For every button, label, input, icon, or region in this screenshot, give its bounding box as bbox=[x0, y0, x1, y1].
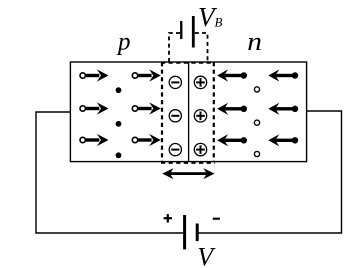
donor ion row1 bbox=[194, 76, 206, 88]
donor ion row3 bbox=[194, 143, 206, 155]
wire: battery VB right dashed lead bbox=[195, 33, 208, 62]
depletion box top edge (dashed) bbox=[161, 61, 215, 63]
depletion boundary right (dashed) bbox=[213, 62, 215, 162]
battery VB positive plate bbox=[192, 16, 195, 48]
semiconductor body rectangle bbox=[70, 62, 306, 162]
svg-text:V: V bbox=[197, 243, 216, 268]
electron drift arrow n row3 col1 bbox=[217, 134, 247, 146]
acceptor ion row1 bbox=[169, 76, 181, 88]
electron drift arrow n row1 col2 bbox=[268, 69, 298, 81]
svg-text:VB: VB bbox=[198, 2, 223, 32]
wire: battery VB left dashed lead bbox=[169, 33, 180, 62]
depletion boundary left (dashed) bbox=[161, 62, 163, 162]
junction line bbox=[188, 62, 190, 162]
electron dot p 2 bbox=[116, 121, 122, 127]
electron drift arrow n row3 col2 bbox=[268, 134, 298, 146]
electron drift arrow n row2 col1 bbox=[217, 103, 247, 115]
hole drift arrow p row3 col1 bbox=[80, 134, 109, 146]
electron drift arrow n row2 col2 bbox=[268, 103, 298, 115]
electron dot p 1 bbox=[116, 87, 122, 93]
hole circle n 1 bbox=[254, 87, 259, 92]
depletion width double arrow bbox=[162, 168, 214, 179]
electron drift arrow n row1 col1 bbox=[217, 69, 247, 81]
hole drift arrow p row1 col2 bbox=[132, 69, 161, 81]
hole drift arrow p row2 col1 bbox=[80, 102, 109, 114]
svg-text:p: p bbox=[116, 29, 131, 56]
wire: right lead and loop from battery bbox=[198, 111, 341, 233]
acceptor ion row2 bbox=[169, 110, 181, 122]
donor ion row2 bbox=[194, 110, 206, 122]
hole drift arrow p row1 col1 bbox=[80, 69, 109, 81]
battery VB negative plate bbox=[180, 21, 182, 39]
label - at battery V bbox=[213, 218, 220, 220]
hole drift arrow p row3 col2 bbox=[132, 134, 161, 146]
hole drift arrow p row2 col2 bbox=[132, 102, 161, 114]
label + at battery V bbox=[164, 214, 172, 222]
battery V negative plate bbox=[196, 224, 199, 242]
battery V positive plate bbox=[183, 215, 186, 249]
hole circle n 3 bbox=[254, 151, 259, 156]
wire: left lead and loop to battery bbox=[36, 112, 183, 233]
electron dot p 3 bbox=[116, 152, 122, 158]
svg-text:n: n bbox=[247, 28, 262, 57]
acceptor ion row3 bbox=[169, 144, 181, 156]
hole circle n 2 bbox=[254, 120, 259, 125]
depletion box bottom edge (dashed) bbox=[161, 162, 215, 164]
